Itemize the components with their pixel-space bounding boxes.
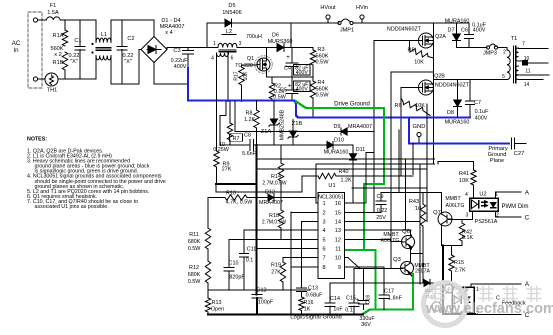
capacitor C7 0.1uF 400V [469,80,471,102]
svg-text:400V: 400V [296,70,309,76]
svg-text:R14: R14 [271,174,281,180]
wire aux row y145 [220,144,250,146]
svg-text:C7: C7 [474,100,481,106]
svg-text:R17: R17 [234,71,240,80]
svg-text:10: 10 [335,256,341,262]
svg-text:NCL30051: NCL30051 [318,195,344,201]
svg-text:MURS360: MURS360 [268,39,293,45]
wire mesh row y192 [381,192,442,194]
resistor R43 10 [422,193,424,205]
svg-text:0.25W: 0.25W [213,147,229,153]
svg-text:1K: 1K [304,307,311,313]
resistor R14 2.7M 0.5W [280,145,282,163]
svg-text:0.1uF: 0.1uF [475,109,489,115]
svg-text:0.5W: 0.5W [188,246,201,252]
drive ground green branch from Q3 emitter [412,274,414,310]
wire C6/D7 node to JMP3 [457,47,488,49]
wire U1 pin8 [291,266,318,268]
wire U1 pin2 [291,211,318,213]
svg-text:C13: C13 [308,286,318,292]
svg-text:JMP1: JMP1 [340,28,354,34]
wire U2 pin3 [472,213,474,220]
wire U1 pin1 [315,164,317,203]
svg-text:2: 2 [323,210,326,216]
wire Q3 emitter down [411,275,413,276]
wire T1 pin 14 stub [519,79,544,81]
svg-text:C1: C1 [74,38,81,44]
wire DC+ rail [166,48,168,50]
resistor R6 10K [401,98,403,102]
resistor R7 10 0.25W [229,102,231,124]
transistor Q2A NDD04N60ZT [419,33,434,48]
svg-text:3: 3 [466,213,469,219]
zener Z1A MMBZ5248B [273,101,275,120]
svg-text:680K: 680K [188,272,201,278]
svg-text:14: 14 [335,220,341,226]
wire D6 node up to HV rail [290,23,292,48]
watermark text [425,287,553,318]
svg-text:10K: 10K [414,60,424,66]
wire bootstrap tap [391,71,434,73]
thermistor TH1 [38,78,45,80]
svg-text:C12: C12 [257,288,267,294]
svg-text:C: C [525,215,530,222]
svg-text:x 2: x 2 [54,52,61,58]
svg-text:NOTES:: NOTES: [27,137,47,143]
diode D6 MURS360 [277,44,284,52]
svg-text:F1: F1 [50,3,57,9]
svg-text:5.1K: 5.1K [462,235,473,241]
svg-text:4.7K, 0.5W: 4.7K, 0.5W [226,200,254,206]
svg-text:1.8nF: 1.8nF [388,296,402,302]
resistor R40 1.2K [302,175,318,177]
drive ground green trace [296,102,412,310]
wire R40 left drop [301,176,303,192]
transistor Q6 MMBT A06LTG [402,236,415,249]
svg-text:11: 11 [525,69,530,75]
capacitor C2 [121,20,123,47]
svg-text:associated U1 pins as possible: associated U1 pins as possible. [35,204,109,210]
svg-text:R11: R11 [189,232,199,238]
resistor R42 5.1K [461,220,463,224]
svg-text:R15: R15 [454,260,464,266]
svg-text:R41: R41 [459,171,469,177]
svg-text:MMBT: MMBT [445,196,461,202]
svg-text:820pF: 820pF [229,275,245,281]
wire Q7 emitter down [441,227,443,246]
svg-text:C4: C4 [284,66,291,72]
diode D11 [352,145,354,154]
wire U1 pin4 [244,229,318,231]
wire mesh vertical x399 [398,130,400,193]
svg-text:C8: C8 [244,133,251,139]
capacitor C12 100pF [252,294,262,296]
capacitor C11 0.1 [243,230,245,253]
svg-text:NDD04N60ZT: NDD04N60ZT [435,83,470,89]
capacitor C27 [511,138,513,149]
resistor R1B [62,52,67,70]
diode D9 MRA4007 [234,102,236,132]
transistor Q7 MMBT A06LTG [438,212,452,226]
svg-text:D7: D7 [448,28,455,34]
svg-text:C15: C15 [346,296,356,302]
svg-text:R43: R43 [409,199,419,205]
resistor R11 680K 0.5W [207,198,209,229]
resistor R18 2.7M 0.5W [280,198,282,211]
svg-text:C2: C2 [127,36,134,42]
resistor R17 10K [242,64,258,66]
transistor Q1 TO-220 MOSFET [255,56,273,74]
svg-text:2.7K: 2.7K [454,268,465,274]
svg-text:3: 3 [323,220,326,226]
diode D13 [424,280,430,287]
diode D5 1N5406 [206,23,208,48]
wire U2 pin1 to A [495,192,497,198]
resistor R5 10K [409,41,411,50]
wire Q7 collector up [441,193,443,212]
wire mesh vertical x405 [405,159,407,230]
resistor R13 Open [207,290,209,298]
wire pin3 chain [301,222,303,288]
wire Q6 emitter to Q3 collector [410,248,412,262]
wire mesh row y188 [352,187,427,189]
capacitor C10 820pF [228,240,230,268]
svg-text:Drive Ground: Drive Ground [334,102,370,108]
svg-text:7: 7 [522,42,525,48]
svg-text:Q2A: Q2A [435,34,446,40]
svg-text:6: 6 [323,246,326,252]
wire source row [266,76,313,78]
drive ground green branch to U1 pin 11 [346,249,364,251]
resistor R16 1K [299,297,304,311]
svg-text:14: 14 [524,82,530,88]
wire U3 pin3 [453,313,455,314]
svg-text:C3: C3 [173,48,180,54]
svg-text:R16: R16 [304,300,314,306]
wire DC rail L2 to D6 [237,47,277,49]
svg-text:400V: 400V [296,87,309,93]
svg-text:Q3: Q3 [393,257,401,263]
svg-text:C27: C27 [514,151,525,157]
transistor Q2B NDD04N60ZT [419,80,434,95]
wire T1 pin 11 stub [519,74,550,76]
zener Z1B [292,120,294,132]
resistor R4 560K 0.5W [312,77,314,81]
svg-text:1: 1 [476,287,479,293]
svg-text:680K: 680K [188,239,201,245]
wire mesh row y163.8 [316,163,435,165]
svg-text:Plane: Plane [490,158,504,164]
wire U3 pin1 to A [470,284,472,287]
svg-text:R13: R13 [212,300,222,306]
resistor R12 680K 0.5W [207,249,209,261]
wire U1 pin9 row [345,266,385,268]
svg-text:D6: D6 [272,33,279,39]
svg-text:1nF: 1nF [333,307,343,313]
svg-text:R5: R5 [408,48,415,54]
svg-text:10: 10 [415,206,421,212]
capacitor C3 [187,48,189,51]
svg-text:0.1: 0.1 [345,308,353,314]
svg-text:A06LTG: A06LTG [381,238,400,244]
wire mesh row y158.8 [257,158,435,160]
svg-text:GND: GND [413,124,426,130]
wire U3 pin2 to C [470,313,472,315]
svg-text:MMBZ5248B: MMBZ5248B [280,109,286,140]
svg-text:C14: C14 [330,296,340,302]
svg-text:C6: C6 [461,28,468,34]
svg-text:27K: 27K [222,167,232,173]
svg-text:Z1B: Z1B [292,121,303,127]
svg-text:MURA160: MURA160 [445,120,470,126]
wire Q7 base row [449,219,473,221]
wire driver midpoint tap [411,253,424,255]
svg-text:27K: 27K [271,270,281,276]
svg-text:0.68uF: 0.68uF [306,293,323,299]
svg-text:0.5W: 0.5W [315,93,329,99]
wire pin2 drop [290,212,292,315]
svg-text:8: 8 [323,265,326,271]
svg-text:R3: R3 [317,47,324,53]
svg-text:R4: R4 [317,80,324,86]
svg-text:15: 15 [335,210,341,216]
svg-text:JMP3: JMP3 [483,51,497,57]
resistor R8 1.2K [256,101,258,111]
svg-text:R7: R7 [233,136,240,142]
svg-text:R40: R40 [339,169,349,175]
svg-text:R19: R19 [271,263,281,269]
svg-text:700uH: 700uH [246,34,262,40]
resistor R3 560K 0.5W [312,48,314,51]
svg-text:Open: Open [211,307,224,313]
svg-text:12: 12 [335,238,341,244]
wire U1 pin13 row [345,229,412,231]
jumper JMP3 [486,46,489,49]
svg-text:U1: U1 [328,183,335,189]
wire U1 pin14 row [345,221,421,223]
resistor R2 0.15 0.5W [271,77,273,83]
bridge rectifier D1-D4 MRA4007 [141,37,167,63]
svg-text:A06LTG: A06LTG [446,203,465,209]
jumper JMP1 [291,22,339,24]
svg-text:AC: AC [12,40,21,47]
watermark logo circle [423,282,467,326]
wire Q1 source [265,68,267,77]
wire mesh vertical x413 [412,144,414,175]
diode D10 MURA160 [327,141,333,148]
svg-text:400V: 400V [473,28,486,34]
svg-text:4: 4 [465,192,468,198]
svg-text:6: 6 [231,56,234,62]
svg-text:C16: C16 [366,295,372,305]
wire bridge left from AC bottom [138,50,140,85]
svg-text:Q1: Q1 [247,56,254,62]
svg-text:11: 11 [335,246,341,252]
svg-text:L1: L1 [101,32,107,38]
svg-text:D9: D9 [334,124,341,130]
svg-text:4: 4 [211,56,214,62]
svg-text:U2: U2 [479,192,486,198]
op-amp U2 PS2561A optocoupler [470,198,499,211]
wire U1 pin10 diagonal [345,257,349,259]
svg-text:10K: 10K [415,103,425,109]
svg-text:4: 4 [323,228,326,234]
svg-text:400V: 400V [174,64,187,70]
svg-text:10K: 10K [243,71,249,81]
svg-text:1: 1 [323,201,326,207]
capacitor C16 330uF 36V [363,269,365,301]
wire Q7 emitter to R42 bottom [442,245,463,247]
wire Q2B gate [401,87,419,89]
capacitor C15 0.1 [353,269,355,304]
capacitor C14 1nF [329,283,331,303]
wire U1 pin7 [283,257,318,259]
svg-text:Q6: Q6 [402,229,410,235]
svg-text:x 4: x 4 [165,30,172,36]
svg-text:HVin: HVin [356,5,368,11]
wire HV rail right [353,22,469,24]
fuse F1 [38,19,46,21]
svg-text:5: 5 [502,74,505,80]
svg-text:7: 7 [323,256,326,262]
svg-text:D11: D11 [356,147,366,153]
wire mesh row y168.8 [257,168,428,170]
svg-text:2.7M,0.5W: 2.7M,0.5W [262,181,286,187]
wire U1 pin12 row [345,239,392,241]
svg-text:R12: R12 [189,265,199,271]
svg-text:R1A: R1A [53,33,64,39]
diode D8 MURA160 [457,80,459,101]
svg-text:2: 2 [503,50,506,56]
node AC line terminal [33,18,37,22]
svg-text:3: 3 [239,41,242,47]
svg-text:100pF: 100pF [258,300,274,306]
svg-text:1.5A: 1.5A [47,10,59,16]
resistor R19 27K [282,258,284,262]
op-amp U1 NCL30051 controller [318,193,345,279]
svg-text:R8: R8 [246,111,253,117]
svg-text:D5: D5 [228,3,235,9]
svg-text:HVout: HVout [320,5,336,11]
wire bottom rail [58,78,96,80]
svg-text:D10: D10 [334,138,344,144]
signal ground thick bus upper [216,183,257,185]
wire bridge top [153,20,155,37]
wire Q2A gate [374,40,419,42]
resistor R15 2.7K [451,246,453,256]
svg-text:R6: R6 [395,103,402,109]
wire half-bridge vertical [433,23,435,164]
U3 ground thick trace [442,246,444,315]
resistor R1A [64,20,66,30]
svg-text:C17: C17 [384,289,394,295]
wire row y283 to opto U3 [330,282,423,284]
diode D12 MRA4007 [268,194,274,201]
capacitor C4 82uF 400V [291,48,293,64]
wire U1 pin16 row [345,202,367,204]
svg-text:T1: T1 [511,36,518,42]
wire U1 pin5 [229,239,318,241]
svg-text:NDD04N60ZT: NDD04N60ZT [387,27,422,33]
wire half-bridge midpoint to T1 pin 5 [434,79,508,81]
svg-text:25V: 25V [376,215,386,221]
svg-text:1.2K: 1.2K [340,178,351,184]
wire mesh vertical x420 [419,164,421,284]
svg-text:"X": "X" [124,59,132,65]
wire U2 pin2 to C [495,213,497,218]
svg-text:5: 5 [323,238,326,244]
wire U1 pin6 [257,248,319,250]
svg-text:Q7: Q7 [433,210,441,216]
capacitor C5 82uF 400V [291,77,293,90]
svg-text:R10: R10 [226,191,236,197]
wire T1 pin 10 stub [519,60,524,62]
svg-text:400V: 400V [475,116,488,122]
svg-text:1.2K: 1.2K [244,117,255,123]
svg-text:Logic/signal Ground: Logic/signal Ground [290,315,342,321]
logic signal ground black trace [208,313,363,315]
svg-text:1N5406: 1N5406 [222,10,242,16]
svg-text:36V: 36V [361,322,371,328]
wire U1 pin3 [302,221,319,223]
svg-text:www.elecfans.com: www.elecfans.com [425,301,553,317]
svg-text:1: 1 [213,41,216,47]
resistor R9 27K [216,53,218,151]
drive ground green to logic ground joint [362,310,377,315]
wire top rail to L1 [61,19,96,21]
svg-text:D8: D8 [447,110,454,116]
wire mid rail y290 [208,289,310,291]
svg-text:2: 2 [496,213,499,219]
svg-text:0.5W: 0.5W [315,60,329,66]
svg-text:0.1: 0.1 [246,258,254,264]
resistor R10 4.7K 0.5W [225,195,247,200]
wire bridge bottom to power ground [153,63,155,85]
capacitor C13 0.68uF [297,287,307,289]
svg-text:C9: C9 [377,194,384,200]
power ground blue branch to primary ground plane [409,118,509,144]
wire T1 pin 7 stub [519,48,549,50]
svg-text:C11: C11 [247,247,257,253]
wire Q6 collector [410,230,412,235]
svg-text:2.7M,0.5W: 2.7M,0.5W [262,220,286,226]
capacitor C1 [79,20,81,47]
svg-text:R1B: R1B [53,60,64,66]
svg-text:"X": "X" [70,59,78,65]
wire R41 top to bridge mid [438,161,474,163]
svg-text:MURA160: MURA160 [324,150,349,156]
svg-text:Q2B: Q2B [434,74,445,80]
svg-text:0.22: 0.22 [377,208,388,214]
power ground plane blue trace [188,68,470,118]
node AC neutral terminal [33,77,37,81]
capacitor C6 0.1uF 400V [468,23,470,35]
op-amp U3 PS2561A optocoupler [452,287,474,313]
svg-text:+: + [286,54,290,61]
svg-text:9: 9 [338,265,341,271]
resistor R41 10K [473,162,475,171]
transistor Q3 MMBT 2907A [401,262,414,275]
signal ground thick vertical [256,145,258,295]
capacitor C8 5.6nF [249,140,251,151]
wire Q1 drain [265,48,267,61]
svg-text:TH1: TH1 [47,88,58,94]
capacitor C9 0.22 25V [380,193,382,202]
svg-text:5.6nF: 5.6nF [242,151,256,157]
svg-text:C10: C10 [229,261,239,267]
AC input dashed box [28,12,42,88]
svg-text:MRA4007: MRA4007 [259,200,283,206]
